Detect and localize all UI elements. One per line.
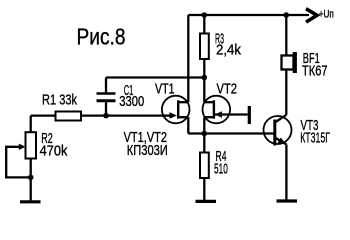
svg-text:2,4k: 2,4k	[216, 42, 241, 59]
svg-text:VT2: VT2	[217, 81, 238, 98]
svg-text:КП303И: КП303И	[127, 142, 168, 159]
svg-text:510: 510	[214, 161, 228, 178]
svg-text:Рис.8: Рис.8	[77, 23, 126, 49]
svg-text:+Uп: +Uп	[319, 9, 334, 21]
svg-text:470k: 470k	[40, 143, 68, 160]
svg-text:КТ315Г: КТ315Г	[300, 130, 330, 147]
svg-text:VT1: VT1	[155, 81, 175, 98]
svg-text:ТК67: ТК67	[302, 63, 328, 80]
svg-text:3300: 3300	[119, 93, 144, 110]
svg-text:R1 33k: R1 33k	[42, 92, 77, 109]
